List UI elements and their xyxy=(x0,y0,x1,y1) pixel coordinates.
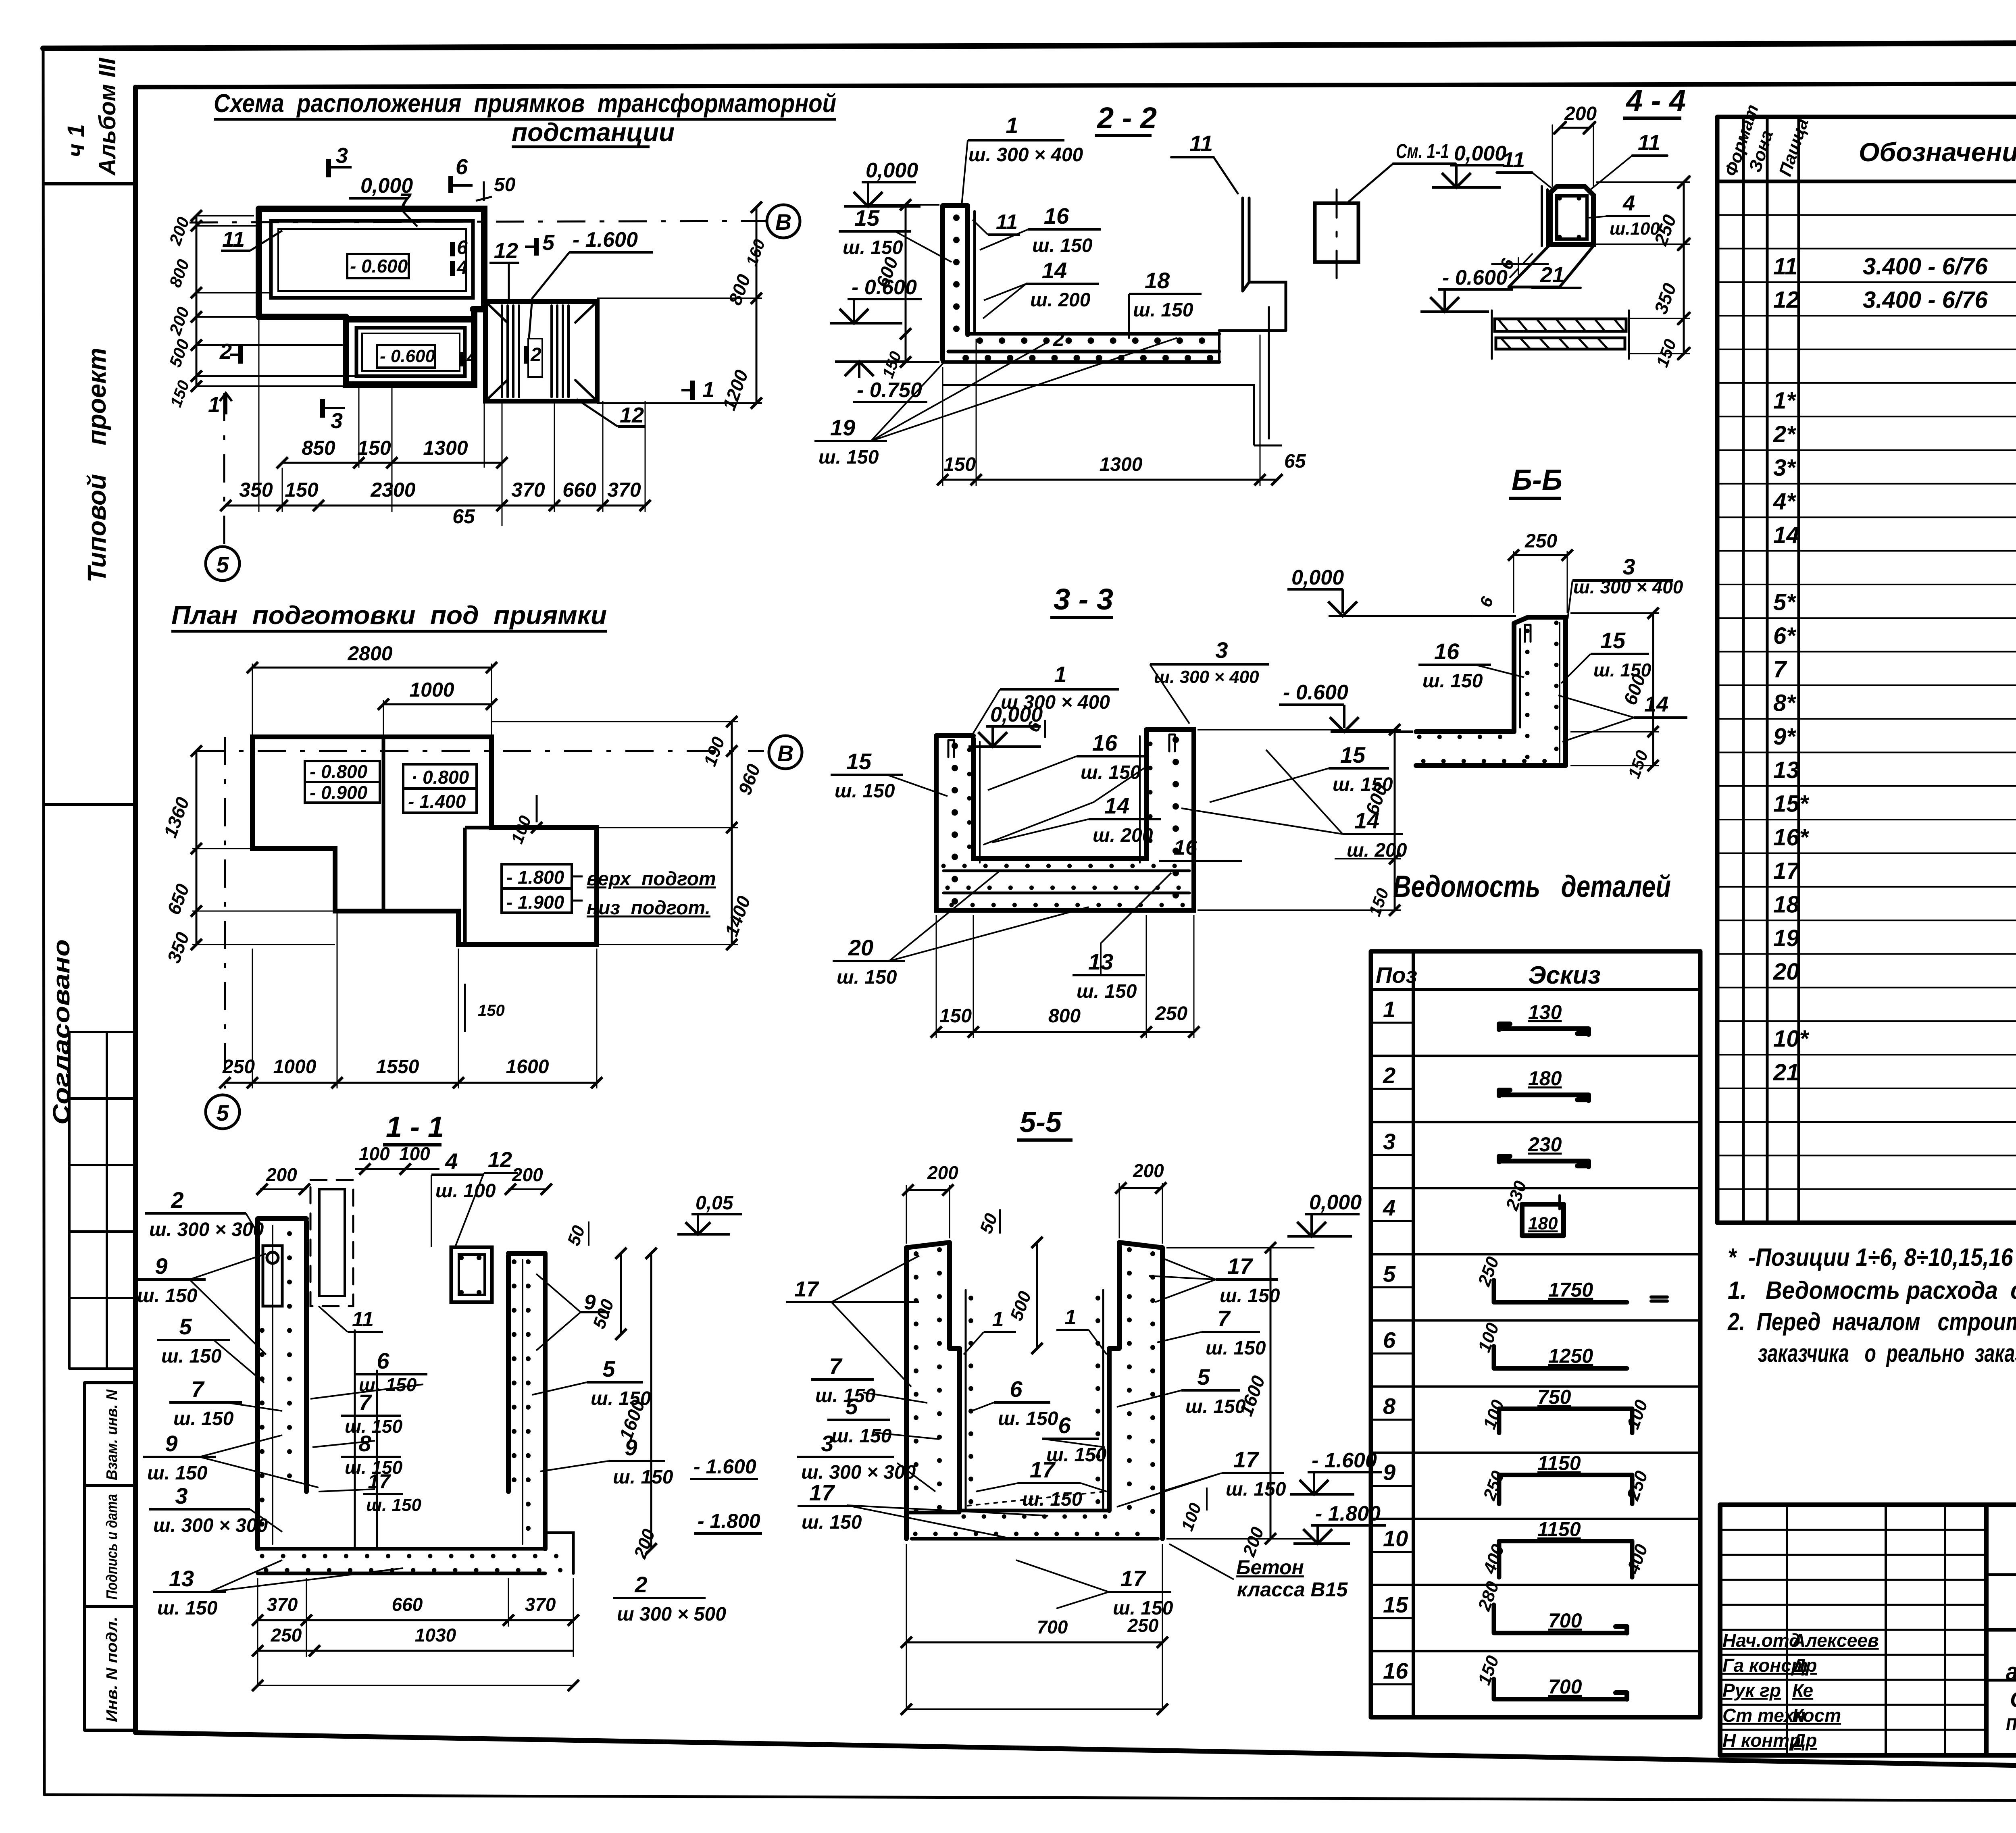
prep plan axis B xyxy=(196,736,802,769)
svg-text:17: 17 xyxy=(368,1470,391,1493)
level box -1.800/-1.900 with notes xyxy=(502,864,572,913)
section 2-2 drawing xyxy=(943,131,1456,362)
svg-text:21: 21 xyxy=(1773,1059,1799,1086)
svg-text:20: 20 xyxy=(1773,959,1799,985)
svg-text:65: 65 xyxy=(1284,451,1306,472)
U channel outline xyxy=(936,730,1194,910)
svg-text:11: 11 xyxy=(352,1308,374,1331)
svg-text:660: 660 xyxy=(392,1594,423,1615)
svg-text:Кост: Кост xyxy=(1792,1705,1841,1726)
svg-text:20: 20 xyxy=(848,935,873,960)
section Б-Б drawing xyxy=(1416,617,1566,766)
svg-text:17: 17 xyxy=(1773,858,1800,884)
svg-text:13: 13 xyxy=(169,1566,194,1591)
section mark 6 top xyxy=(451,155,473,193)
svg-text:50: 50 xyxy=(494,174,516,196)
bottom slab xyxy=(258,1549,545,1573)
svg-text:150: 150 xyxy=(1474,1653,1503,1687)
svg-text:5-5: 5-5 xyxy=(1020,1106,1062,1138)
svg-text:230: 230 xyxy=(1502,1178,1531,1213)
section mark 3 bottom xyxy=(323,399,345,433)
svg-text:4: 4 xyxy=(1622,191,1635,215)
svg-text:200: 200 xyxy=(512,1164,543,1185)
left margin compartment dividers xyxy=(44,184,135,805)
svg-text:250: 250 xyxy=(1474,1254,1503,1289)
3-3 level 0.000 left xyxy=(968,703,1043,747)
base slab xyxy=(943,334,1219,362)
plan view: transformer pit layout xyxy=(259,209,597,401)
section mark 1 left xyxy=(208,393,232,417)
svg-text:370: 370 xyxy=(267,1594,298,1615)
svg-text:ш. 150: ш. 150 xyxy=(831,1425,892,1447)
2-2 label 1 ш.300x400 xyxy=(962,112,1083,206)
svg-text:ш. 150: ш. 150 xyxy=(157,1598,218,1619)
svg-text:ш. 150: ш. 150 xyxy=(998,1408,1058,1429)
svg-text:15: 15 xyxy=(854,205,880,231)
svg-text:ш. 150: ш. 150 xyxy=(835,780,895,802)
section Б-Б title xyxy=(1509,464,1562,498)
2-2 level -0.600 xyxy=(830,276,922,323)
svg-text:Схема расположения приямков: Схема расположения приямков трансформато… xyxy=(214,89,836,118)
svg-text:7: 7 xyxy=(829,1353,843,1379)
svg-text:7: 7 xyxy=(1217,1306,1231,1331)
svg-text:Схема расположения: Схема расположения xyxy=(2010,1687,2016,1712)
svg-text:370: 370 xyxy=(607,479,641,501)
1-1 labels left column xyxy=(133,1187,403,1619)
right wall xyxy=(508,1253,545,1549)
4-4 level -0.600 xyxy=(1420,266,1513,312)
svg-text:150: 150 xyxy=(478,1002,505,1019)
5-5 label 17 bottom xyxy=(1016,1560,1173,1619)
svg-text:3: 3 xyxy=(1215,637,1228,663)
section mark 3 top xyxy=(329,144,352,177)
svg-text:- 1.600: - 1.600 xyxy=(573,228,638,252)
svg-text:12: 12 xyxy=(488,1148,512,1172)
svg-text:3: 3 xyxy=(1383,1129,1395,1154)
svg-text:1*: 1* xyxy=(1773,388,1796,414)
svg-text:План подготовки под приямки: План подготовки под приямки xyxy=(171,601,607,630)
svg-text:- 1.900: - 1.900 xyxy=(506,892,564,913)
svg-text:660: 660 xyxy=(562,479,596,501)
svg-text:Рук гр: Рук гр xyxy=(1722,1680,1781,1701)
svg-text:См. 1-1: См. 1-1 xyxy=(1396,140,1449,162)
svg-text:1750: 1750 xyxy=(1548,1279,1593,1301)
anchor plate top left xyxy=(263,1246,282,1306)
svg-text:200: 200 xyxy=(927,1162,958,1183)
svg-text:100: 100 xyxy=(1623,1397,1652,1432)
svg-text:50: 50 xyxy=(564,1223,589,1248)
svg-text:ш. 150: ш. 150 xyxy=(173,1408,234,1429)
Б-Б dim 6 xyxy=(1470,594,1516,616)
svg-text:200: 200 xyxy=(165,214,193,248)
label 12 lower with leader xyxy=(577,399,645,427)
svg-text:200: 200 xyxy=(1564,103,1597,125)
1-1 level 0.000 top right xyxy=(677,1192,742,1234)
svg-text:250: 250 xyxy=(222,1056,255,1078)
2-2 labels 15,16,11,14,18 xyxy=(839,203,1202,350)
svg-text:* -Позиции 1÷6, 8÷10,15,16 с: * -Позиции 1÷6, 8÷10,15,16 см. ведомость… xyxy=(1728,1244,2016,1271)
svg-text:- 0.600: - 0.600 xyxy=(1442,266,1508,289)
svg-text:100: 100 xyxy=(359,1143,390,1164)
svg-text:13: 13 xyxy=(1773,757,1799,783)
svg-text:1150: 1150 xyxy=(1537,1518,1581,1541)
svg-text:12: 12 xyxy=(620,403,644,427)
svg-text:- 0.750: - 0.750 xyxy=(857,379,922,402)
svg-text:- 0.900: - 0.900 xyxy=(310,782,368,803)
svg-text:Пашца: Пашца xyxy=(1775,116,1812,179)
floor and base slab xyxy=(906,1511,1158,1539)
svg-text:14: 14 xyxy=(1042,258,1067,283)
svg-text:Поз: Поз xyxy=(1376,962,1417,988)
svg-text:100: 100 xyxy=(1474,1320,1503,1355)
5-5 dims top xyxy=(902,1160,1166,1354)
svg-text:100: 100 xyxy=(507,813,535,846)
see 1-1 detail box xyxy=(1315,203,1358,262)
svg-text:ш. 150: ш. 150 xyxy=(137,1285,198,1307)
cable trench block xyxy=(485,302,597,401)
svg-text:ч 1: ч 1 xyxy=(63,124,89,157)
svg-text:- 1.800: - 1.800 xyxy=(698,1510,760,1532)
svg-text:3 - 3: 3 - 3 xyxy=(1054,583,1113,616)
svg-text:3.400 - 6/76: 3.400 - 6/76 xyxy=(1863,287,1988,313)
svg-text:16: 16 xyxy=(1044,203,1069,229)
svg-text:ш. 300 × 400: ш. 300 × 400 xyxy=(1154,667,1259,687)
1-1 labels top xyxy=(256,1143,552,1247)
svg-text:100: 100 xyxy=(1177,1500,1205,1533)
5-5 bottom dims xyxy=(901,1544,1168,1715)
svg-text:ш. 150: ш. 150 xyxy=(345,1416,403,1437)
1-1 labels right xyxy=(532,1221,762,1625)
dim 50 top right xyxy=(476,174,516,201)
svg-text:0,000: 0,000 xyxy=(866,159,918,182)
svg-text:Обозначение: Обозначение xyxy=(1859,137,2016,167)
svg-text:4: 4 xyxy=(445,1148,458,1174)
svg-text:5: 5 xyxy=(542,231,555,255)
2-2 level -0.750 xyxy=(835,362,927,402)
ground line right xyxy=(1243,198,1249,291)
svg-text:ш. 150: ш. 150 xyxy=(1022,1489,1083,1510)
left margin label: ч1 Альбом III xyxy=(63,57,121,176)
svg-text:Бетон: Бетон xyxy=(1236,1556,1304,1579)
section mark 2 trench xyxy=(526,344,541,366)
3-3 labels 15,16,14 xyxy=(831,730,1407,861)
svg-text:17: 17 xyxy=(1227,1253,1254,1279)
svg-text:5: 5 xyxy=(1197,1364,1210,1390)
svg-text:ш. 150: ш. 150 xyxy=(161,1346,222,1367)
svg-text:- 1.800: - 1.800 xyxy=(506,867,564,888)
splay lines to 21 xyxy=(1509,244,1593,287)
2-2 label 19 xyxy=(814,338,1177,468)
3-3 label 1 ш300x400 left xyxy=(972,662,1119,736)
plan axis line 5 xyxy=(206,393,240,580)
left wall xyxy=(906,1242,960,1539)
section mark 1 right xyxy=(681,378,714,402)
svg-text:6*: 6* xyxy=(1773,623,1796,649)
svg-text:В: В xyxy=(777,741,793,766)
svg-text:19: 19 xyxy=(1773,925,1799,951)
2-2 dim 600 xyxy=(867,199,939,381)
svg-text:200: 200 xyxy=(165,304,193,338)
svg-text:5: 5 xyxy=(845,1394,858,1419)
svg-text:1: 1 xyxy=(1383,997,1395,1022)
section 3-3 drawing xyxy=(936,730,1194,910)
Б-Б level 0.000 xyxy=(1287,566,1474,616)
svg-text:17: 17 xyxy=(809,1480,835,1505)
svg-text:1550: 1550 xyxy=(376,1056,419,1078)
column section xyxy=(1550,186,1593,244)
prep plan dims top xyxy=(247,642,497,737)
upper pit level box -0.600 xyxy=(347,254,409,278)
svg-text:ш. 150: ш. 150 xyxy=(843,237,903,258)
Б-Б dim 250 top xyxy=(1508,531,1573,613)
svg-text:850: 850 xyxy=(302,437,335,459)
label 11 with leader xyxy=(221,227,282,252)
svg-text:приямков трансформат.: приямков трансформат. xyxy=(2006,1710,2016,1735)
svg-text:650: 650 xyxy=(163,881,193,917)
svg-text:15: 15 xyxy=(1383,1592,1408,1617)
title block xyxy=(1720,1505,2016,1757)
svg-text:14: 14 xyxy=(1644,692,1668,716)
svg-text:700: 700 xyxy=(1037,1617,1068,1637)
svg-text:3: 3 xyxy=(821,1431,833,1456)
4-4 level 0.000 xyxy=(1432,142,1506,187)
upper pit outline xyxy=(259,209,484,317)
svg-text:15: 15 xyxy=(1600,628,1626,653)
svg-text:5: 5 xyxy=(1383,1261,1396,1286)
svg-text:5: 5 xyxy=(602,1356,615,1382)
svg-text:16: 16 xyxy=(1434,639,1460,664)
right wall xyxy=(1109,1242,1162,1539)
svg-text:160: 160 xyxy=(743,237,768,268)
svg-text:- 1.600: - 1.600 xyxy=(1312,1449,1377,1472)
svg-text:3: 3 xyxy=(1622,554,1635,579)
svg-text:2: 2 xyxy=(1383,1063,1395,1088)
left wall xyxy=(258,1219,306,1549)
svg-text:3: 3 xyxy=(331,409,343,433)
svg-text:ш. 300 × 300: ш. 300 × 300 xyxy=(149,1219,264,1240)
svg-text:0,000: 0,000 xyxy=(1454,142,1506,165)
svg-text:700: 700 xyxy=(1548,1675,1582,1698)
svg-text:9: 9 xyxy=(1383,1460,1395,1485)
svg-text:16: 16 xyxy=(1092,730,1118,755)
svg-text:1: 1 xyxy=(702,378,714,402)
svg-text:ш. 150: ш. 150 xyxy=(802,1512,862,1533)
svg-text:верх подгот: верх подгот xyxy=(587,868,716,890)
svg-text:9: 9 xyxy=(584,1291,596,1314)
svg-text:1250: 1250 xyxy=(1548,1345,1593,1367)
svg-text:Инв. N подл.: Инв. N подл. xyxy=(104,1617,121,1722)
svg-text:Б-Б: Б-Б xyxy=(1512,464,1562,496)
inner rebar verticals xyxy=(966,1290,1103,1511)
left margin label: Согласовано xyxy=(48,939,75,1125)
notes xyxy=(1727,1244,2016,1367)
svg-text:ш. 150: ш. 150 xyxy=(837,967,897,988)
svg-text:18: 18 xyxy=(1145,268,1170,293)
svg-text:автомобильных шин: автомобильных шин xyxy=(2006,1658,2016,1686)
preparation plan outline xyxy=(252,737,716,945)
svg-text:15*: 15* xyxy=(1773,791,1810,817)
svg-text:5*: 5* xyxy=(1773,589,1796,616)
svg-text:16: 16 xyxy=(1174,836,1198,859)
svg-text:- 1.800: - 1.800 xyxy=(1315,1502,1381,1525)
svg-text:2: 2 xyxy=(219,339,232,364)
left margin lower stamp boxes xyxy=(85,1383,135,1730)
svg-text:150: 150 xyxy=(285,479,319,501)
left margin signature grid xyxy=(69,1032,135,1369)
svg-text:- 0.600: - 0.600 xyxy=(1283,681,1348,704)
svg-text:250: 250 xyxy=(271,1625,302,1646)
lower foundation outline xyxy=(943,385,1282,445)
wall L-profile xyxy=(943,206,968,360)
svg-text:3: 3 xyxy=(175,1483,187,1508)
svg-text:2: 2 xyxy=(1053,328,1064,350)
label 12 with leader xyxy=(489,239,519,299)
svg-text:150: 150 xyxy=(939,1005,972,1027)
floor slab lines xyxy=(943,871,1189,893)
svg-text:65: 65 xyxy=(452,505,475,528)
svg-text:21: 21 xyxy=(1540,263,1564,287)
svg-text:800: 800 xyxy=(1048,1005,1081,1027)
svg-text:8: 8 xyxy=(358,1431,371,1456)
svg-text:2: 2 xyxy=(634,1572,647,1597)
svg-text:6: 6 xyxy=(1476,594,1497,610)
section mark 2 left xyxy=(219,339,240,364)
svg-text:370: 370 xyxy=(525,1594,556,1615)
svg-text:0,000: 0,000 xyxy=(1291,566,1344,589)
svg-text:17: 17 xyxy=(1233,1447,1260,1472)
svg-text:3*: 3* xyxy=(1773,455,1796,481)
svg-text:Др: Др xyxy=(1791,1655,1817,1676)
svg-text:15: 15 xyxy=(846,749,872,774)
svg-text:1: 1 xyxy=(1065,1306,1077,1329)
svg-text:800: 800 xyxy=(165,257,193,290)
svg-text:4: 4 xyxy=(467,347,478,368)
svg-text:370: 370 xyxy=(511,479,545,501)
svg-text:Подпись и дата: Подпись и дата xyxy=(104,1494,121,1600)
svg-text:ш. 150: ш. 150 xyxy=(1046,1444,1107,1466)
2-2 level 0.000 xyxy=(844,159,921,206)
svg-text:100: 100 xyxy=(1479,1397,1508,1432)
svg-text:ш. 150: ш. 150 xyxy=(1081,762,1141,783)
svg-text:9*: 9* xyxy=(1773,724,1796,750)
svg-text:1300: 1300 xyxy=(423,437,468,459)
section 4-4 drawing xyxy=(1492,103,1689,370)
svg-text:50: 50 xyxy=(976,1211,1002,1236)
svg-text:ш. 150: ш. 150 xyxy=(1077,981,1137,1002)
svg-text:ш. 100: ш. 100 xyxy=(435,1180,496,1202)
svg-text:низ подгот.: низ подгот. xyxy=(587,897,710,919)
svg-text:1000: 1000 xyxy=(409,678,454,701)
svg-text:ш. 150: ш. 150 xyxy=(613,1467,673,1488)
svg-text:Альбом III: Альбом III xyxy=(94,57,121,176)
svg-text:1600: 1600 xyxy=(506,1056,549,1078)
3-3 bottom dims xyxy=(931,915,1200,1038)
svg-text:12: 12 xyxy=(494,239,518,263)
svg-text:17: 17 xyxy=(794,1277,820,1301)
1-1 bottom dims xyxy=(252,1578,579,1691)
prep plan axis 5 xyxy=(206,737,240,1129)
svg-text:180: 180 xyxy=(1528,1213,1558,1233)
svg-text:6: 6 xyxy=(456,155,468,179)
svg-text:ш. 150: ш. 150 xyxy=(1422,670,1483,692)
svg-text:2: 2 xyxy=(530,344,541,366)
prep plan dims right xyxy=(492,716,764,950)
prep plan dims left xyxy=(160,745,335,966)
rebar hook top xyxy=(1525,625,1531,642)
svg-text:класса В15: класса В15 xyxy=(1237,1578,1348,1601)
svg-text:9: 9 xyxy=(625,1435,637,1460)
svg-text:ш. 200: ш. 200 xyxy=(1093,825,1153,846)
lower pit outline xyxy=(346,309,474,385)
svg-text:150: 150 xyxy=(167,378,193,410)
svg-text:- 0.800: - 0.800 xyxy=(310,761,368,782)
5-5 levels right xyxy=(1287,1191,1362,1236)
svg-text:1360: 1360 xyxy=(160,794,194,840)
dim 200 top xyxy=(1560,127,1589,129)
svg-text:10*: 10* xyxy=(1773,1026,1810,1052)
svg-text:заказчика о реально заказа: заказчика о реально заказанном оборудова… xyxy=(1758,1340,2016,1367)
section mark 5 + level -1.600 xyxy=(525,228,653,338)
svg-text:400: 400 xyxy=(1623,1542,1652,1577)
svg-text:750: 750 xyxy=(1537,1386,1571,1409)
5-5 labels left xyxy=(786,1256,1048,1538)
svg-text:14: 14 xyxy=(1104,793,1129,818)
svg-text:200: 200 xyxy=(630,1526,659,1561)
svg-text:700: 700 xyxy=(1548,1609,1582,1632)
svg-text:1: 1 xyxy=(1006,112,1018,138)
svg-text:800: 800 xyxy=(724,271,754,308)
svg-text:11: 11 xyxy=(1189,131,1213,156)
svg-text:1400: 1400 xyxy=(721,893,755,939)
inner diagonal leaders xyxy=(984,766,1148,845)
5-5 labels inside xyxy=(964,1306,1107,1510)
svg-text:ш. 150: ш. 150 xyxy=(147,1463,208,1484)
svg-text:2800: 2800 xyxy=(347,642,392,665)
svg-text:8: 8 xyxy=(1383,1394,1396,1419)
svg-text:250: 250 xyxy=(1524,531,1557,552)
svg-text:250: 250 xyxy=(1127,1615,1159,1636)
svg-text:В: В xyxy=(775,209,791,235)
svg-text:0,000: 0,000 xyxy=(1309,1191,1362,1214)
5-5 labels right xyxy=(1117,1242,1314,1544)
svg-text:350: 350 xyxy=(163,929,193,965)
vedomost detaley heading xyxy=(1393,870,1671,904)
svg-text:4*: 4* xyxy=(1773,489,1796,515)
plan level 0.000 xyxy=(349,174,413,198)
svg-text:6: 6 xyxy=(377,1348,389,1373)
specification table xyxy=(1717,102,2016,1223)
sand hatch in floor xyxy=(968,1492,1105,1506)
svg-text:1300: 1300 xyxy=(1100,454,1143,475)
5-5 concrete note xyxy=(1169,1544,1348,1601)
svg-text:5: 5 xyxy=(216,552,229,577)
svg-text:16*: 16* xyxy=(1773,824,1810,851)
svg-text:1000: 1000 xyxy=(273,1056,317,1078)
bottom dimension chains xyxy=(220,309,651,528)
wall rebar dots xyxy=(953,218,960,351)
label 7 with leader xyxy=(399,189,417,227)
svg-text:16: 16 xyxy=(1383,1658,1408,1683)
svg-text:Ке: Ке xyxy=(1792,1680,1813,1701)
svg-text:400: 400 xyxy=(1479,1542,1508,1577)
svg-text:Взам. инв. N: Взам. инв. N xyxy=(104,1389,121,1480)
svg-text:Типовой проект: Типовой проект xyxy=(82,347,111,583)
svg-text:- 1.600: - 1.600 xyxy=(694,1455,756,1478)
svg-text:7: 7 xyxy=(1773,656,1787,682)
svg-text:14: 14 xyxy=(1773,522,1799,548)
rebar dots xyxy=(1525,631,1530,758)
svg-text:8*: 8* xyxy=(1773,690,1796,716)
